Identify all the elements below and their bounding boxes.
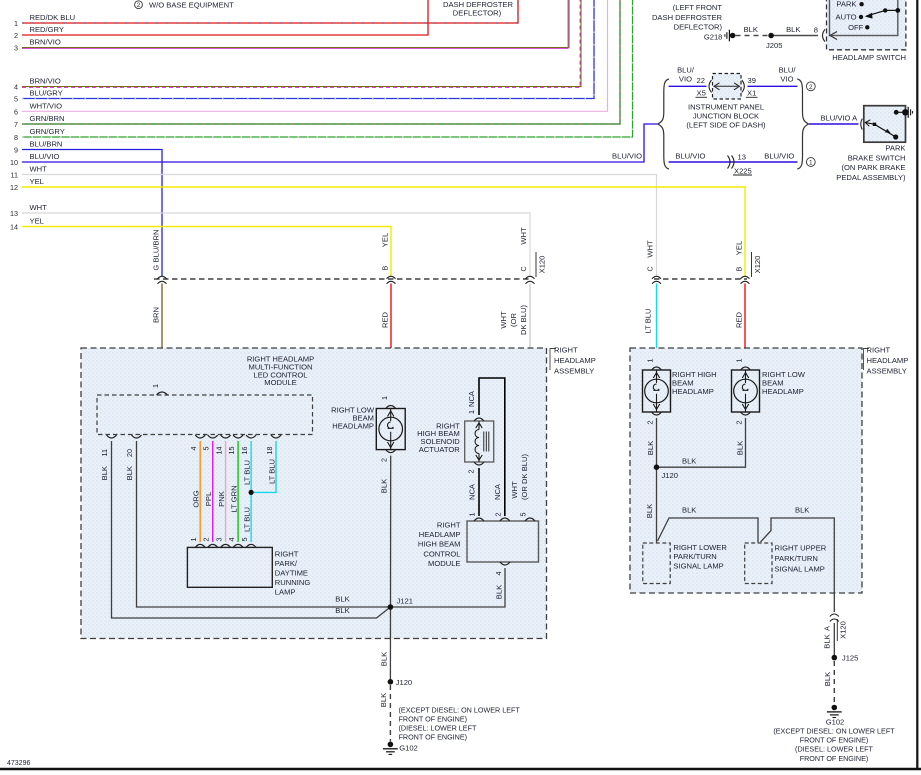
junction J121: [388, 597, 413, 610]
svg-text:J125: J125: [842, 654, 858, 663]
svg-text:RIGHT LOWER: RIGHT LOWER: [673, 543, 727, 552]
svg-text:X120: X120: [839, 621, 848, 639]
connector pin C symbol (left X120): [519, 227, 535, 284]
svg-text:ASSEMBLY: ASSEMBLY: [554, 367, 594, 376]
svg-text:3: 3: [214, 538, 223, 542]
right park/daytime running lamp box: [187, 547, 272, 587]
svg-text:LT GRN: LT GRN: [229, 485, 238, 512]
svg-text:5: 5: [240, 538, 249, 542]
lamp pin 1 (top): [380, 396, 396, 409]
svg-text:BLK: BLK: [682, 457, 696, 466]
label ground location (left G102): [399, 706, 521, 742]
svg-text:BLK: BLK: [380, 652, 389, 666]
svg-text:J120: J120: [396, 678, 412, 687]
svg-text:15: 15: [227, 447, 236, 455]
svg-text:LT BLU: LT BLU: [267, 459, 276, 484]
svg-text:BLU/: BLU/: [779, 66, 797, 75]
svg-text:(ON PARK BRAKE: (ON PARK BRAKE: [842, 163, 906, 172]
right lower park/turn signal lamp box (dashed): [643, 543, 670, 584]
svg-text:HEADLAMP SWITCH: HEADLAMP SWITCH: [832, 53, 906, 62]
svg-text:DAYTIME: DAYTIME: [275, 569, 308, 578]
svg-text:G218: G218: [704, 33, 723, 42]
svg-text:BRN/VIO: BRN/VIO: [30, 77, 61, 86]
wire 9 BLU/BRN: [14, 140, 162, 277]
module pin 5: [202, 435, 218, 451]
label BLK (pin11 run): [335, 606, 349, 615]
wire LT BLU pin 18: [251, 441, 276, 492]
wire BRN (X120-G down to module pin 1): [152, 284, 163, 390]
svg-text:YEL: YEL: [735, 241, 744, 255]
svg-text:13: 13: [738, 153, 746, 162]
svg-text:2: 2: [493, 513, 502, 517]
headlamp switch contacts: [836, 0, 901, 32]
svg-text:YEL: YEL: [30, 217, 44, 226]
wire 13 WHT: [10, 203, 530, 276]
module pin 1 (top, BRN): [151, 384, 168, 395]
label WHT (OR DK BLU) at control module pin 5: [510, 454, 529, 500]
svg-text:11: 11: [11, 171, 18, 180]
lamp pin 2 (bottom): [380, 450, 396, 462]
lamp pin 4: [227, 538, 243, 548]
svg-text:14: 14: [214, 447, 223, 455]
connector X225 pin 13: [728, 153, 753, 176]
wire 10 BLU/VIO: [10, 124, 658, 167]
wire RED (right X120-B down to right low beam lamp): [735, 284, 746, 365]
svg-text:3: 3: [14, 44, 18, 53]
lamp pin 2: [202, 538, 218, 548]
junction dot (LT BLU splice): [249, 490, 254, 495]
wire LT BLU (right X120-C down to right high beam lamp): [644, 284, 657, 365]
svg-text:5: 5: [202, 447, 211, 451]
wire 2 RED/GRY: [14, 0, 428, 40]
circled 1 (bottom path): [806, 158, 815, 167]
note 2 W/O BASE EQUIPMENT: [135, 1, 235, 10]
label right high beam solenoid actuator: [417, 421, 460, 454]
svg-text:GRN/GRY: GRN/GRY: [30, 127, 65, 136]
svg-text:BLU/VIO: BLU/VIO: [612, 152, 642, 161]
wire 1 RED/DK BLU: [14, 0, 518, 28]
svg-text:2: 2: [137, 2, 141, 9]
svg-text:39: 39: [748, 76, 756, 85]
svg-text:7: 7: [14, 120, 18, 129]
junction J120 (right): [654, 464, 678, 480]
wire RED (X120-B down to left low beam lamp): [381, 284, 392, 404]
wire 4 BRN/VIO: [14, 0, 581, 92]
wire BLK branch to right lower park/turn signal lamp: [658, 506, 759, 543]
svg-text:5: 5: [519, 513, 528, 517]
drawing number 473296: [7, 760, 30, 767]
wire LT GRN: [229, 441, 238, 542]
svg-text:YEL: YEL: [380, 233, 389, 247]
svg-text:RIGHT: RIGHT: [867, 346, 891, 355]
svg-text:WHT: WHT: [30, 203, 48, 212]
svg-text:HEADLAMP: HEADLAMP: [554, 356, 596, 365]
svg-text:WHT: WHT: [646, 240, 655, 258]
svg-text:PPL: PPL: [204, 492, 213, 506]
label right upper park/turn signal lamp: [775, 544, 827, 574]
svg-text:1: 1: [646, 359, 655, 363]
svg-text:BLK: BLK: [744, 25, 758, 34]
svg-text:VIO: VIO: [780, 75, 793, 84]
wire 7 GRN/BRN: [14, 0, 620, 129]
svg-text:MODULE: MODULE: [428, 559, 461, 568]
connector pin B symbol (right X120): [735, 241, 750, 284]
wire 8 GRN/GRY: [14, 0, 633, 142]
connector pin 22 X5: [696, 76, 712, 98]
park brake switch box: [861, 106, 913, 143]
svg-text:BLK: BLK: [645, 504, 654, 518]
svg-text:BLK: BLK: [100, 466, 109, 480]
wire BLK (J205 to headlamp switch pin 8): [771, 25, 818, 36]
svg-text:YEL: YEL: [30, 177, 44, 186]
control module pin 1: [468, 513, 485, 522]
svg-text:SIGNAL LAMP: SIGNAL LAMP: [775, 564, 825, 573]
svg-text:BLK: BLK: [682, 506, 696, 515]
wire 3 BRN/VIO: [14, 0, 569, 53]
right low beam headlamp (right assembly): [732, 370, 760, 412]
svg-text:HEADLAMP: HEADLAMP: [762, 387, 804, 396]
lamp pin 3: [214, 538, 230, 548]
svg-text:BLU/GRY: BLU/GRY: [30, 89, 63, 98]
svg-text:6: 6: [14, 107, 18, 116]
junction J125: [832, 654, 859, 663]
svg-text:DEFLECTOR): DEFLECTOR): [453, 9, 502, 18]
svg-text:WHT/VIO: WHT/VIO: [30, 101, 63, 110]
svg-text:4: 4: [227, 538, 236, 542]
wire pin 8 entry (headlamp switch): [814, 26, 837, 42]
svg-text:LT BLU: LT BLU: [242, 507, 251, 532]
svg-text:J121: J121: [397, 597, 413, 606]
wire BLK dashed (J125 to G102 right): [823, 661, 834, 705]
svg-text:BLK: BLK: [335, 606, 349, 615]
label right headlamp high beam control module: [418, 520, 461, 568]
module pin 11: [100, 435, 117, 480]
svg-text:LT BLU: LT BLU: [242, 460, 251, 485]
svg-text:(EXCEPT DIESEL: ON LOWER LEFT: (EXCEPT DIESEL: ON LOWER LEFT: [773, 726, 895, 735]
svg-text:1: 1: [467, 410, 476, 414]
svg-text:13: 13: [10, 209, 18, 218]
svg-text:1: 1: [380, 396, 389, 400]
svg-text:LT BLU: LT BLU: [644, 308, 653, 333]
ground G102 (left): [383, 742, 418, 755]
svg-text:DK BLU): DK BLU): [519, 305, 528, 335]
svg-text:BLK: BLK: [795, 506, 809, 515]
frame border right: [916, 0, 918, 769]
svg-text:HIGH BEAM: HIGH BEAM: [418, 540, 461, 549]
svg-text:G102: G102: [399, 744, 418, 753]
wire BLU/VIO A (to park brake switch): [809, 114, 859, 125]
svg-text:HEADLAMP: HEADLAMP: [672, 387, 714, 396]
svg-text:4: 4: [14, 83, 18, 92]
connector X120 pin A (bottom right): [823, 614, 848, 649]
svg-text:J120: J120: [662, 471, 678, 480]
svg-text:RED: RED: [381, 311, 390, 328]
wire BLK (low beam right pin2 to J120): [657, 418, 746, 467]
svg-text:ORG: ORG: [192, 490, 201, 507]
svg-text:473296: 473296: [7, 760, 30, 767]
svg-text:BLK: BLK: [380, 479, 389, 493]
svg-text:WHT: WHT: [519, 227, 528, 245]
svg-text:ASSEMBLY: ASSEMBLY: [867, 367, 907, 376]
junction J205: [766, 33, 782, 50]
svg-text:LAMP: LAMP: [275, 588, 296, 597]
svg-text:(DIESEL: LOWER LEFT: (DIESEL: LOWER LEFT: [795, 745, 873, 754]
svg-text:(LEFT SIDE OF DASH): (LEFT SIDE OF DASH): [686, 120, 766, 129]
wire LT BLU pin 16: [242, 441, 251, 542]
svg-text:BLU/VIO: BLU/VIO: [30, 152, 60, 161]
svg-text:14: 14: [10, 223, 18, 232]
svg-text:B: B: [735, 267, 744, 272]
svg-text:FRONT OF ENGINE): FRONT OF ENGINE): [399, 733, 468, 742]
svg-text:PARK/TURN: PARK/TURN: [775, 554, 818, 563]
connector X120 left (dashed line): [154, 278, 530, 280]
svg-text:RED/DK BLU: RED/DK BLU: [30, 13, 76, 22]
label X120 (right connector): [752, 252, 763, 277]
low beam right pin 1: [735, 359, 751, 371]
control module pin 2: [493, 513, 510, 522]
lamp pin 1: [189, 538, 205, 548]
svg-text:8: 8: [814, 26, 818, 35]
label right high beam headlamp: [672, 370, 717, 396]
svg-text:HEADLAMP: HEADLAMP: [332, 421, 374, 430]
wire BLU/VIO (junction block top path): [669, 66, 707, 87]
svg-text:RIGHT: RIGHT: [437, 520, 461, 529]
svg-text:SIGNAL LAMP: SIGNAL LAMP: [673, 561, 723, 570]
svg-text:(OR: (OR: [509, 313, 518, 327]
svg-text:RED: RED: [735, 311, 744, 328]
label right park/daytime running lamp: [275, 550, 311, 597]
svg-text:HEADLAMP: HEADLAMP: [867, 356, 909, 365]
svg-text:BLU/BRN: BLU/BRN: [151, 230, 160, 263]
label right headlamp assembly (left box): [550, 346, 596, 376]
svg-text:NCA: NCA: [467, 390, 476, 407]
module pin 15: [227, 435, 243, 455]
connector pin 39 X1: [742, 76, 758, 98]
wire 11 WHT: [11, 165, 657, 277]
svg-text:NCA: NCA: [493, 483, 502, 500]
wire BLK pin 11: [112, 441, 391, 618]
svg-text:BLU/VIO A: BLU/VIO A: [821, 114, 859, 123]
svg-text:11: 11: [100, 449, 109, 456]
svg-text:(LEFT FRONT: (LEFT FRONT: [673, 3, 723, 12]
wire BLK (X120-A to J125): [833, 623, 835, 658]
label right lower park/turn signal lamp: [673, 543, 727, 571]
svg-text:X120: X120: [753, 256, 762, 274]
svg-text:X1: X1: [747, 89, 756, 98]
svg-text:BLU/: BLU/: [677, 66, 695, 75]
svg-text:2: 2: [14, 31, 18, 40]
svg-text:JUNCTION BLOCK: JUNCTION BLOCK: [693, 112, 759, 121]
wire BLK branch to right upper park/turn signal lamp and exit: [761, 506, 835, 613]
svg-text:4: 4: [494, 572, 503, 576]
svg-text:X225: X225: [734, 166, 752, 175]
wire BLK pin 20: [137, 441, 391, 607]
svg-text:2: 2: [380, 458, 389, 462]
wire BLU/VIO (top path right segment): [748, 66, 798, 87]
svg-text:BLK: BLK: [823, 634, 832, 648]
label BLK (pin20 run): [335, 595, 349, 604]
right headlamp assembly box (right): [630, 348, 862, 593]
svg-text:10: 10: [10, 158, 18, 167]
svg-text:PARK: PARK: [836, 0, 856, 9]
wire BLK (low beam pin2 down through J121 to J120): [380, 456, 391, 682]
svg-text:2: 2: [646, 421, 655, 425]
wire BLU/VIO (junction block bottom path): [669, 152, 798, 163]
svg-text:BLU/VIO: BLU/VIO: [764, 152, 794, 161]
wire BLK (control module pin 4 to J121): [390, 568, 505, 607]
svg-text:BRN/VIO: BRN/VIO: [30, 38, 61, 47]
svg-text:RIGHT: RIGHT: [554, 346, 578, 355]
svg-text:GRN/BRN: GRN/BRN: [30, 114, 65, 123]
svg-text:G: G: [151, 265, 160, 271]
svg-text:FRONT OF ENGINE): FRONT OF ENGINE): [800, 754, 869, 763]
svg-text:B: B: [380, 266, 389, 271]
wire PPL: [204, 441, 213, 542]
svg-text:MODULE: MODULE: [264, 378, 297, 387]
wire 14 YEL: [10, 217, 391, 277]
svg-text:(EXCEPT DIESEL: ON LOWER LEFT: (EXCEPT DIESEL: ON LOWER LEFT: [399, 706, 521, 715]
wire 6 WHT/VIO: [14, 0, 608, 116]
svg-text:1: 1: [189, 538, 198, 542]
svg-text:DEFLECTOR): DEFLECTOR): [674, 23, 723, 32]
label ground location (right G102): [773, 726, 895, 763]
right low beam headlamp (left assembly): [376, 409, 405, 450]
svg-text:J205: J205: [766, 41, 782, 50]
headlamp switch inner box: [830, 0, 898, 36]
svg-text:PEDAL ASSEMBLY): PEDAL ASSEMBLY): [836, 173, 906, 182]
svg-text:W/O BASE EQUIPMENT: W/O BASE EQUIPMENT: [149, 1, 234, 10]
right upper park/turn signal lamp box (dashed): [745, 543, 772, 584]
svg-text:BLU/BRN: BLU/BRN: [30, 140, 63, 149]
wire 5 BLU/GRY: [14, 0, 594, 104]
svg-text:FRONT OF ENGINE): FRONT OF ENGINE): [399, 715, 468, 724]
svg-text:4: 4: [189, 447, 198, 451]
label headlamp switch: [832, 53, 906, 62]
svg-text:BLU/VIO: BLU/VIO: [675, 152, 705, 161]
svg-text:20: 20: [125, 449, 134, 457]
svg-text:BRAKE SWITCH: BRAKE SWITCH: [848, 153, 906, 162]
svg-text:PNK: PNK: [217, 491, 226, 507]
solenoid pin 2 (bottom): [467, 462, 485, 474]
wire BLK dashed (G218 to J205): [736, 25, 772, 36]
svg-text:WHT: WHT: [510, 481, 519, 499]
svg-text:2: 2: [809, 84, 813, 91]
svg-text:RED/GRY: RED/GRY: [30, 25, 64, 34]
svg-text:OFF: OFF: [848, 23, 864, 32]
svg-text:2: 2: [735, 421, 744, 425]
svg-text:BLK: BLK: [646, 441, 655, 455]
connector X120 right (dashed line): [654, 278, 747, 280]
svg-text:BLK: BLK: [125, 466, 134, 480]
svg-text:CONTROL: CONTROL: [423, 549, 460, 558]
high beam pin 2: [646, 412, 662, 425]
svg-text:RUNNING: RUNNING: [275, 578, 311, 587]
label X120 (left connector): [536, 252, 547, 277]
frame border bottom: [0, 768, 921, 770]
svg-text:1: 1: [735, 359, 744, 363]
right headlamp high beam control module box: [467, 521, 539, 562]
svg-text:BLK: BLK: [335, 595, 349, 604]
svg-text:2: 2: [467, 470, 476, 474]
label right headlamp multi-function led control module: [247, 355, 314, 388]
svg-text:2: 2: [202, 538, 211, 542]
svg-text:RIGHT: RIGHT: [275, 550, 299, 559]
label right headlamp assembly (right box): [864, 346, 909, 376]
svg-text:PARK/: PARK/: [275, 559, 298, 568]
LED control module box (dashed): [97, 395, 313, 435]
instrument panel junction block splice box (dashed): [713, 74, 742, 100]
svg-text:RIGHT UPPER: RIGHT UPPER: [775, 544, 827, 553]
wire 12 YEL: [10, 177, 745, 276]
svg-text:X120: X120: [538, 256, 547, 274]
svg-text:BLK: BLK: [736, 441, 745, 455]
label park brake switch: [836, 144, 906, 182]
wire BLK dashed (J120 to G102 left): [379, 685, 390, 742]
label left front dash defroster deflector: [652, 3, 723, 31]
svg-text:DASH DEFROSTER: DASH DEFROSTER: [652, 13, 723, 22]
wire ORG: [192, 441, 201, 542]
svg-text:BLK: BLK: [823, 672, 832, 686]
svg-text:5: 5: [14, 95, 18, 104]
control module pin 4 (bottom): [494, 562, 510, 576]
svg-text:NCA: NCA: [468, 483, 477, 500]
wire BLK (high beam pin2 down to lower park lamp): [645, 418, 657, 543]
connector pin G symbol: [151, 230, 166, 284]
svg-text:BLK: BLK: [786, 25, 800, 34]
svg-text:BLK: BLK: [379, 693, 388, 707]
svg-text:X5: X5: [697, 89, 706, 98]
svg-text:FRONT OF ENGINE): FRONT OF ENGINE): [800, 736, 869, 745]
svg-text:9: 9: [14, 146, 18, 155]
ground G218: [704, 30, 736, 42]
svg-text:12: 12: [10, 183, 18, 192]
svg-text:C: C: [646, 266, 655, 271]
module pin 18: [265, 435, 281, 455]
svg-text:PARK: PARK: [885, 144, 905, 153]
svg-text:HEADLAMP: HEADLAMP: [419, 530, 461, 539]
svg-text:1: 1: [14, 19, 18, 28]
svg-text:BRN: BRN: [152, 307, 161, 323]
svg-text:22: 22: [697, 76, 705, 85]
svg-text:AUTO: AUTO: [836, 13, 857, 22]
svg-text:18: 18: [265, 447, 274, 455]
svg-text:A: A: [823, 626, 832, 631]
module pin 4: [189, 435, 205, 451]
high beam pin 1: [646, 359, 662, 371]
label right low beam headlamp: [331, 406, 375, 431]
svg-text:(OR DK BLU): (OR DK BLU): [520, 454, 529, 500]
svg-text:8: 8: [14, 133, 18, 142]
svg-text:ACTUATOR: ACTUATOR: [419, 445, 461, 454]
svg-text:INSTRUMENT PANEL: INSTRUMENT PANEL: [688, 103, 764, 112]
label dash defroster deflector (top center): [443, 0, 514, 18]
circled 2 (top path): [806, 82, 815, 91]
right high beam solenoid actuator box: [465, 421, 494, 462]
wire WHT (OR DK BLU) (X120-C down to control module pin 5): [499, 284, 530, 517]
brace right (to park brake switch): [797, 79, 808, 169]
module pin 16: [240, 435, 256, 455]
svg-text:1: 1: [809, 160, 813, 167]
right high beam headlamp: [643, 370, 671, 412]
wire NCA (solenoid pin2 to control module pin 1): [478, 468, 480, 516]
connector pin B symbol (left X120): [380, 233, 395, 284]
svg-text:G102: G102: [826, 718, 845, 727]
solenoid pin 1 (top): [467, 390, 484, 421]
svg-text:C: C: [519, 266, 528, 271]
label right low beam headlamp (right): [762, 370, 806, 396]
module pin 14: [214, 435, 230, 455]
control module pin 5: [519, 513, 536, 522]
